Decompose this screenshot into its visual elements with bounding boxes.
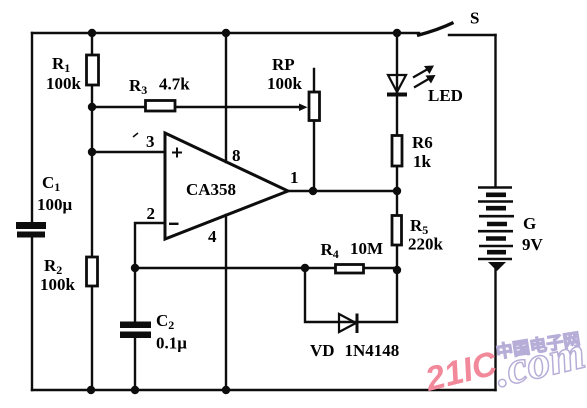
resistor R1 body (87, 55, 99, 85)
wire VD diode branch (305, 268, 397, 322)
svg-text:10M: 10M (350, 239, 383, 258)
op-amp plus sign (172, 148, 182, 158)
resistor R5 body (392, 216, 402, 246)
resistor R6 body (392, 136, 402, 167)
switch S lever (417, 23, 454, 36)
node bottom pin4 (222, 386, 230, 394)
watermark 21IC.com (421, 327, 587, 399)
node R6/R5 output (393, 187, 401, 195)
svg-text:100k: 100k (40, 275, 76, 294)
svg-text:2: 2 (147, 204, 156, 223)
resistor R4 body (336, 265, 364, 274)
potentiometer RP wiper arrowhead (299, 104, 308, 112)
node top LED (393, 29, 401, 37)
svg-text:100μ: 100μ (37, 195, 73, 214)
wire R3 row to RP wiper (92, 106, 300, 108)
wire battery column bottom (494, 267, 496, 390)
svg-text:R6: R6 (412, 133, 433, 152)
svg-text:1: 1 (290, 168, 299, 187)
resistor R3 body (146, 101, 176, 112)
svg-text:4.7k: 4.7k (159, 75, 190, 94)
node top R1 (88, 29, 96, 37)
svg-text:CA358: CA358 (186, 180, 236, 199)
svg-text:S: S (470, 9, 479, 28)
resistor R2 body (87, 257, 98, 286)
wire switch fixed contact (449, 34, 496, 36)
svg-text:4: 4 (208, 227, 217, 246)
node R1/R3 tap (88, 103, 96, 111)
svg-text:0.1μ: 0.1μ (156, 334, 187, 353)
wire R1-R2 divider column (91, 33, 93, 390)
node top pin8 (222, 29, 230, 37)
wire RP column (313, 69, 315, 191)
svg-text:100k: 100k (267, 74, 303, 93)
battery bottom terminal blob (488, 262, 506, 271)
svg-text:1N4148: 1N4148 (345, 341, 400, 360)
node pin2/C2 (131, 264, 139, 272)
capacitor C2 plates (120, 322, 151, 339)
wire op-amp pin 4 ground (225, 215, 227, 390)
wire op-amp pin 3 input (92, 151, 165, 153)
node R1/pin3 tap (88, 148, 96, 156)
stray tick (133, 133, 138, 137)
wire C2 column (134, 268, 136, 390)
wire bottom rail (32, 389, 496, 391)
node RP/output (309, 187, 317, 195)
diode VD symbol (339, 314, 357, 334)
battery G cells (478, 188, 514, 260)
wire op-amp pin 2 input (135, 223, 165, 268)
svg-text:1k: 1k (413, 152, 432, 171)
op-amp minus sign (169, 223, 179, 225)
LED light arrows (413, 70, 427, 78)
potentiometer RP body (309, 92, 320, 121)
node bottom R2 (87, 386, 95, 394)
wire battery column top (494, 35, 496, 187)
svg-text:RP: RP (272, 55, 295, 74)
wire left rail (31, 33, 33, 390)
svg-text:LED: LED (428, 86, 463, 105)
wire top rail (32, 32, 419, 34)
wire op-amp output pin 1 (288, 190, 397, 192)
svg-text:100k: 100k (46, 74, 82, 93)
node bottom C2 (131, 386, 139, 394)
svg-text:220k: 220k (408, 235, 444, 254)
svg-text:G: G (523, 214, 536, 233)
node R5/R4 right (393, 266, 401, 274)
node R4/VD left (301, 264, 309, 272)
wire LED / R6 / R5 column (396, 33, 398, 270)
LED D1 symbol (387, 66, 436, 97)
capacitor C1 plates (16, 222, 46, 238)
op-amp U1 CA358 triangle (165, 133, 288, 239)
svg-text:9V: 9V (522, 235, 544, 254)
svg-text:3: 3 (146, 132, 155, 151)
svg-text:8: 8 (232, 146, 241, 165)
svg-text:VD: VD (310, 341, 335, 360)
wire op-amp pin 8 supply (225, 33, 227, 162)
wire feedback row y=268 (135, 267, 397, 269)
